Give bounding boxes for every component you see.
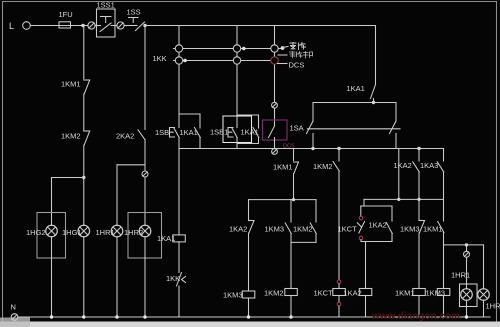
1KK contact circles row2 — [175, 57, 182, 64]
wire to coil 1KM2 — [290, 242, 292, 288]
svg-text:1SB: 1SB — [155, 128, 169, 137]
coil 1KM3 right — [426, 289, 450, 318]
svg-text:1HR1: 1HR1 — [451, 271, 470, 280]
svg-text:L: L — [9, 21, 14, 31]
svg-text:1SB1: 1SB1 — [210, 128, 228, 137]
coil 1KM3 — [223, 291, 255, 318]
feeder from bus — [398, 149, 400, 200]
svg-text:1KM1: 1KM1 — [273, 163, 293, 172]
1KK contact circles row1 — [175, 45, 182, 52]
svg-text:2KA2: 2KA2 — [116, 132, 134, 141]
wire top right down — [375, 26, 377, 85]
wire to lamp — [466, 258, 468, 289]
contact 1KA2 row1 — [394, 149, 420, 200]
terminal — [464, 245, 470, 257]
svg-text:1KM3: 1KM3 — [223, 291, 243, 300]
svg-text:1SA: 1SA — [290, 124, 304, 133]
node L terminal — [9, 21, 30, 31]
svg-text:1KM3: 1KM3 — [400, 225, 420, 234]
DCS remote box — [263, 120, 288, 140]
svg-text:1KM1: 1KM1 — [61, 80, 81, 89]
left sub rail — [249, 199, 317, 201]
red node below 1KCT coil — [337, 302, 341, 306]
terminal circle — [88, 22, 95, 29]
svg-text:1KM2: 1KM2 — [61, 132, 81, 141]
fuse 1FU — [59, 10, 73, 28]
svg-text:1FU: 1FU — [59, 10, 73, 19]
svg-text:1HR: 1HR — [486, 302, 500, 311]
coil 1KCT — [314, 284, 346, 302]
red circle row2 DCS — [271, 57, 278, 64]
lamp 1HR1 — [96, 225, 123, 237]
contact 1KM2 — [61, 131, 90, 145]
coil 1KA2 — [344, 289, 372, 318]
1KK row lines — [174, 48, 283, 50]
junction 2KA2 branch — [143, 24, 146, 27]
contact 1KM3 right — [400, 199, 425, 288]
panel box right — [460, 284, 478, 307]
contact 1KA2 — [369, 206, 393, 242]
join — [291, 241, 316, 243]
svg-text:1KCT: 1KCT — [338, 225, 358, 234]
contact 1KA2 lower left — [229, 200, 254, 291]
contact 1KA1 top right — [347, 84, 376, 104]
group1: wire to parallel branch — [179, 113, 200, 115]
1SA bracket top — [313, 102, 396, 104]
bottom bus N — [11, 303, 18, 321]
position dots — [242, 47, 246, 51]
wires join — [237, 143, 259, 145]
wire branch to 1HG2 — [52, 177, 84, 179]
terminal — [272, 149, 278, 155]
junction dots bottom — [50, 315, 53, 318]
lamp feed rail — [444, 244, 484, 246]
svg-text:1KM2: 1KM2 — [264, 289, 284, 298]
bottom white strip — [0, 322, 500, 327]
svg-text:1SS: 1SS — [127, 8, 141, 17]
svg-text:1KM1: 1KM1 — [395, 289, 415, 298]
wire — [144, 140, 146, 171]
wire — [83, 94, 85, 130]
top bus wire — [146, 25, 376, 27]
svg-text:1KM3: 1KM3 — [426, 289, 446, 298]
label jikong-shoudong (fake hanzi) — [290, 52, 313, 59]
switch 1SS — [124, 8, 144, 31]
junction dot — [81, 24, 84, 27]
contact 1KM1 row1 — [273, 149, 299, 200]
wire 1SS1 to terminal — [111, 25, 117, 27]
panel box — [128, 213, 162, 259]
svg-text:1SS1: 1SS1 — [97, 1, 115, 10]
red node above 1KCT coil — [337, 280, 341, 284]
svg-text:1KM2: 1KM2 — [293, 225, 313, 234]
wire fuse to 1SS1 — [95, 25, 100, 27]
wires to bus — [178, 138, 180, 149]
pair 1KCT / 1KA2 — [363, 199, 365, 206]
lamp 1HR2 — [124, 225, 151, 237]
selector 1SA — [290, 121, 401, 134]
wire — [144, 177, 146, 225]
bottom bus — [18, 316, 490, 318]
svg-text:1KA2: 1KA2 — [394, 161, 412, 170]
svg-text:1KA1: 1KA1 — [347, 84, 365, 93]
wire L to fuse — [30, 25, 88, 27]
wire left branch down — [83, 26, 85, 79]
wire 2KA2 branch down — [144, 26, 146, 130]
svg-text:1KM3: 1KM3 — [265, 225, 285, 234]
1KK selector column wires — [178, 26, 180, 115]
svg-text:DCS: DCS — [289, 61, 305, 70]
pushbutton 1SB — [155, 128, 179, 138]
wire lamp to bus — [51, 237, 53, 318]
lamp 1HG1 — [62, 225, 90, 237]
svg-text:www.diangon.com: www.diangon.com — [371, 311, 460, 322]
svg-text:1KA2: 1KA2 — [369, 221, 387, 230]
lamp 1HR1 right — [451, 271, 472, 301]
terminal circle — [117, 22, 124, 29]
wire 1KM2 to 1KCT coil — [338, 171, 340, 279]
right sub rail — [364, 198, 444, 200]
switch 1SS1 — [97, 1, 116, 38]
coil 1KM1 — [395, 289, 425, 318]
contact 2KA2 — [116, 130, 145, 141]
panel box left — [37, 213, 66, 259]
svg-text:1KCT: 1KCT — [314, 289, 334, 298]
leader stubs — [283, 47, 289, 48]
contact 1KM1 right — [423, 199, 444, 288]
lamp 1HG2 — [26, 225, 57, 237]
main lower bus — [179, 148, 444, 150]
join — [361, 241, 392, 243]
wire lamp to bus — [83, 237, 85, 318]
coil 1KA1 — [157, 234, 185, 273]
contact 1KM2 row1 — [313, 149, 339, 172]
svg-text:1HG2: 1HG2 — [26, 228, 46, 237]
lamp 1HR — [478, 245, 500, 317]
wire down to lamp 1HG1 — [83, 145, 85, 226]
group2: wire to parallel branch — [237, 114, 259, 116]
svg-text:1HR2: 1HR2 — [124, 228, 143, 237]
coil 1KA1 line — [178, 149, 180, 235]
contact 1KM1 — [61, 80, 90, 95]
svg-text:1KM2: 1KM2 — [313, 162, 333, 171]
panel box 1SB1 — [223, 116, 252, 143]
contact 1KA3 row1 — [420, 149, 444, 200]
svg-text:1KK: 1KK — [153, 54, 167, 63]
label benkong (fake hanzi) — [290, 43, 306, 50]
contact 1KM3 — [265, 200, 292, 243]
contact 1KK — [166, 273, 186, 318]
contact 1KA1 — [180, 128, 201, 138]
terminal circle — [142, 171, 148, 177]
wire — [274, 109, 276, 126]
svg-text:N: N — [11, 303, 16, 312]
contact 1KM2 — [293, 200, 316, 243]
svg-text:1KA3: 1KA3 — [420, 161, 438, 170]
wire to coil 1KA2 — [365, 242, 367, 289]
junction — [82, 176, 85, 179]
coil 1KM2 — [264, 289, 297, 318]
DCS branch terminal — [272, 102, 278, 108]
svg-text:1KA2: 1KA2 — [229, 225, 247, 234]
pushbutton 1SB1 — [210, 128, 237, 138]
contact 1KCT with test points — [338, 206, 365, 242]
contact 1KA1 — [241, 128, 259, 138]
contact DCS — [269, 126, 275, 138]
wires to bus — [312, 134, 314, 149]
